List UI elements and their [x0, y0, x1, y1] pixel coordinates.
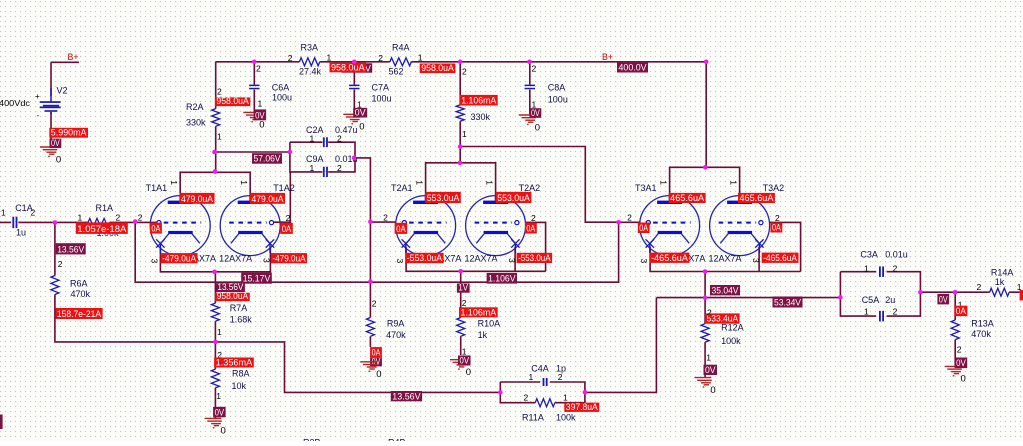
current label 958.0uA after R4A: [420, 64, 456, 74]
svg-text:0V: 0V: [460, 356, 470, 366]
wire feedback to grid node: [135, 222, 618, 283]
capacitor C5A: [879, 311, 881, 322]
svg-text:1: 1: [864, 307, 869, 317]
svg-text:0A: 0A: [282, 224, 292, 234]
triode tube T3A2 (12AX7A): [710, 196, 770, 256]
svg-text:1: 1: [78, 213, 83, 223]
junction B+ corner: [704, 60, 709, 65]
svg-text:1.106mA: 1.106mA: [461, 96, 496, 106]
svg-text:-: -: [37, 111, 40, 120]
voltage label 13.56V feedback wire: [391, 391, 422, 401]
voltage label clipped at left edge: [0, 415, 3, 430]
ground V2: [40, 147, 57, 156]
svg-text:T1A2: T1A2: [273, 183, 295, 193]
svg-text:1: 1: [529, 372, 534, 382]
junction R1A/feedback: [133, 219, 138, 224]
junction C3A/C5A left: [838, 295, 843, 300]
voltage label 13.56V node: [216, 283, 245, 292]
svg-text:R10A: R10A: [478, 319, 501, 329]
current label 1.106mA at R10A: [459, 307, 498, 317]
junction C4A right: [583, 390, 588, 395]
svg-text:2: 2: [138, 213, 143, 223]
svg-text:3: 3: [150, 259, 160, 264]
svg-text:1.106mA: 1.106mA: [461, 307, 497, 317]
svg-text:2: 2: [337, 134, 342, 144]
triode tube T1A1 (12AX7A): [150, 196, 210, 256]
svg-text:397.8uA: 397.8uA: [566, 402, 598, 412]
svg-text:R14A: R14A: [991, 268, 1014, 278]
current label 1.057e-18A: [76, 222, 128, 234]
svg-text:553.0uA: 553.0uA: [427, 193, 460, 203]
svg-text:1k: 1k: [995, 277, 1005, 287]
current label cathode current T2A1: [405, 253, 443, 263]
current label plate current T1A2: [250, 193, 285, 204]
junction C4A left: [498, 390, 503, 395]
triode tube T2A1 (12AX7A): [396, 196, 456, 256]
svg-text:2: 2: [977, 282, 982, 292]
capacitor C6A: [249, 85, 259, 87]
svg-text:1: 1: [728, 180, 738, 185]
current label 1.106mA at R5A: [460, 95, 498, 106]
svg-text:1: 1: [418, 53, 423, 63]
svg-text:0: 0: [259, 120, 264, 131]
resistor R4A: [390, 58, 412, 66]
svg-text:2: 2: [462, 67, 467, 77]
current label cathode current T1A1: [161, 253, 198, 263]
svg-text:3: 3: [262, 258, 272, 263]
junction T1 cathode: [212, 270, 217, 275]
svg-text:562: 562: [389, 67, 404, 77]
triode tube T2A2 (12AX7A): [466, 196, 526, 256]
junction T2 node branch: [458, 144, 463, 149]
resistor R2A: [212, 109, 220, 127]
voltage label 53.34V node: [773, 297, 803, 308]
svg-text:158.7e-21A: 158.7e-21A: [57, 309, 101, 319]
svg-text:2: 2: [707, 307, 712, 317]
current label 958.0uA at R7A: [215, 293, 250, 302]
svg-text:465.6uA: 465.6uA: [740, 193, 774, 203]
svg-text:330k: 330k: [186, 118, 206, 128]
wire T2A2 cathode lead: [514, 247, 516, 271]
svg-text:1: 1: [169, 180, 179, 185]
svg-text:R4B: R4B: [388, 438, 406, 441]
svg-text:958.0uA: 958.0uA: [217, 291, 249, 301]
svg-text:2: 2: [337, 163, 342, 173]
svg-text:2: 2: [116, 213, 121, 223]
svg-text:2: 2: [58, 259, 63, 269]
current label plate current T3A2: [738, 193, 775, 203]
svg-text:R2A: R2A: [186, 102, 204, 112]
svg-text:T2A2: T2A2: [519, 183, 541, 193]
wire C4A/R11A loop: [500, 382, 585, 403]
current label cathode current T1A2: [271, 253, 307, 263]
svg-text:0A: 0A: [151, 224, 160, 234]
svg-text:10k: 10k: [232, 381, 247, 391]
svg-text:0A: 0A: [526, 224, 535, 234]
wire B+ stub at V2: [51, 61, 79, 63]
svg-text:0V: 0V: [531, 108, 540, 118]
voltage label 35.04V node: [710, 285, 740, 295]
svg-text:12AX7A: 12AX7A: [465, 254, 498, 264]
svg-text:465.6uA: 465.6uA: [670, 193, 704, 203]
svg-text:R3B: R3B: [303, 438, 321, 441]
current label plate current T1A1: [180, 193, 215, 204]
wire top B+ rail: [216, 62, 707, 168]
svg-text:12AX7A: 12AX7A: [709, 254, 742, 264]
svg-text:1.68k: 1.68k: [230, 315, 253, 325]
svg-text:100u: 100u: [548, 95, 568, 105]
junction R7A/R8A rail: [213, 340, 218, 345]
wire R5A branch: [459, 62, 461, 163]
svg-text:0: 0: [710, 385, 715, 396]
voltage label 15.17V node: [241, 273, 272, 284]
svg-text:13.56V: 13.56V: [392, 391, 420, 401]
svg-text:1: 1: [484, 180, 494, 185]
svg-text:0A: 0A: [772, 223, 781, 233]
current label grid current T1A2: [280, 223, 293, 234]
capacitor C2A: [323, 137, 325, 147]
svg-text:400.0V: 400.0V: [619, 63, 647, 73]
current label cathode current T2A2: [517, 253, 553, 263]
svg-text:958.0uA: 958.0uA: [216, 96, 249, 106]
current label 397.8uA: [564, 403, 599, 412]
capacitor C4A: [543, 378, 545, 386]
current label 0A at R9A: [370, 347, 382, 358]
junction C-loop left: [288, 150, 293, 155]
svg-text:1.106V: 1.106V: [488, 274, 516, 284]
svg-text:3: 3: [395, 259, 405, 264]
svg-text:C8A: C8A: [548, 83, 566, 93]
junction R13A tap: [953, 290, 958, 295]
junction C-loop right: [352, 156, 357, 161]
svg-text:0.01u: 0.01u: [885, 250, 908, 260]
voltage label 0V at R12A: [704, 365, 718, 375]
current label grid current T2A2: [525, 223, 537, 234]
wire input to T1A1 grid: [0, 221, 157, 223]
junction C7A tap: [352, 60, 357, 65]
svg-text:1: 1: [217, 132, 222, 142]
voltage label 0V at C7A: [353, 108, 367, 118]
svg-text:2: 2: [217, 87, 222, 97]
capacitor C9A: [323, 167, 325, 177]
svg-text:1: 1: [310, 163, 315, 173]
svg-text:0A: 0A: [639, 223, 648, 233]
wire C2A/C9A loop: [290, 142, 355, 172]
current label 958.0uA at R2A: [215, 97, 250, 106]
junction R9A/long wire: [368, 279, 373, 284]
svg-text:1: 1: [258, 99, 263, 109]
svg-text:2: 2: [524, 393, 529, 403]
voltage label 0V at R8A: [213, 407, 226, 418]
svg-text:100k: 100k: [721, 336, 741, 346]
svg-text:57.06V: 57.06V: [254, 154, 281, 164]
wire C3A/C5A loop: [840, 272, 920, 316]
svg-text:0: 0: [466, 367, 471, 378]
svg-text:0: 0: [359, 122, 364, 133]
voltage label 0V at C8A: [530, 108, 542, 118]
resistor R12A: [701, 324, 709, 342]
svg-text:-465.6uA: -465.6uA: [651, 253, 688, 263]
svg-text:R8A: R8A: [232, 369, 250, 379]
resistor R11A: [535, 399, 555, 407]
wire T3 plate rail: [670, 167, 740, 200]
wire T3A1 grid stub: [619, 221, 640, 223]
resistor R9A: [366, 318, 374, 337]
current label plate current T2A2: [496, 192, 532, 203]
current label 0A at R13A: [954, 306, 967, 316]
svg-text:-553.0uA: -553.0uA: [518, 253, 551, 263]
current label 533.4uA at R12A: [705, 313, 740, 323]
svg-text:0: 0: [961, 374, 966, 385]
wire V2 top lead: [50, 62, 52, 96]
ground R8A: [205, 418, 222, 427]
voltage label small V box at R10A: [457, 284, 470, 293]
svg-text:1.356mA: 1.356mA: [216, 358, 253, 368]
resistor R5A (330k): [456, 105, 464, 121]
svg-text:1: 1: [864, 264, 869, 274]
svg-text:12AX7A: 12AX7A: [219, 254, 252, 264]
svg-text:0A: 0A: [956, 306, 966, 316]
junction input/R6A: [53, 220, 58, 225]
wire T2 plate node to grids: [460, 147, 618, 223]
resistor R10A: [457, 318, 465, 337]
svg-text:T3A2: T3A2: [763, 183, 785, 193]
svg-text:-553.0uA: -553.0uA: [407, 253, 443, 263]
svg-text:0V: 0V: [939, 294, 948, 304]
voltage label 0V at R9A: [370, 358, 382, 367]
current label 958.0uA after R3A: [330, 63, 367, 73]
current label 5.990mA: [49, 128, 88, 138]
svg-text:100u: 100u: [372, 94, 392, 104]
svg-text:T2A1: T2A1: [391, 183, 413, 193]
wire C6A stub: [253, 62, 255, 113]
svg-text:C3A: C3A: [860, 250, 878, 260]
svg-text:1: 1: [706, 353, 711, 363]
junction T2 plate rail: [458, 161, 463, 166]
wire T3 cathode to R12A: [704, 272, 706, 378]
svg-text:T3A1: T3A1: [635, 183, 657, 193]
wire T3A2 cathode lead: [758, 247, 760, 272]
svg-text:553.0uA: 553.0uA: [497, 193, 530, 203]
junction T3 output: [703, 296, 708, 301]
ground R13A: [945, 366, 962, 375]
junction T2 cathode: [458, 269, 463, 274]
svg-text:2: 2: [256, 64, 261, 74]
svg-text:958.0uA: 958.0uA: [421, 63, 454, 73]
wire C9A to R9A: [355, 158, 370, 347]
svg-text:1.057e-18A: 1.057e-18A: [77, 224, 126, 234]
current label plate current T3A1: [669, 193, 706, 203]
current label grid current T2A1: [395, 223, 408, 234]
svg-text:2: 2: [383, 213, 388, 223]
junction T1 plate rail: [213, 169, 218, 174]
resistor R13A: [951, 320, 959, 340]
current label grid current T1A1: [150, 223, 162, 234]
wire C8A stub: [529, 62, 531, 115]
current label plate current T2A1: [425, 192, 461, 203]
svg-text:2: 2: [775, 213, 780, 223]
svg-text:0: 0: [535, 122, 540, 133]
svg-text:0: 0: [56, 154, 61, 165]
junction C3A/C5A right: [918, 290, 923, 295]
svg-text:B+: B+: [68, 52, 79, 62]
svg-text:3: 3: [639, 259, 649, 264]
svg-text:0: 0: [376, 369, 381, 380]
ground C8A: [519, 115, 536, 124]
svg-text:1: 1: [1, 208, 6, 218]
wire T2A1 grid stub: [370, 221, 396, 223]
wire R6A branch: [55, 222, 500, 392]
junction T3 plate rail: [703, 165, 708, 170]
voltage label 0V at V2: [50, 139, 62, 149]
svg-text:13.56V: 13.56V: [57, 244, 84, 254]
wire T2 cathode to R10A: [460, 271, 462, 355]
wire V2 to ground: [50, 112, 52, 147]
svg-text:C6A: C6A: [272, 83, 290, 93]
svg-text:35.04V: 35.04V: [712, 285, 739, 295]
wire C7A stub: [353, 62, 355, 115]
svg-text:C7A: C7A: [372, 83, 390, 93]
svg-text:2: 2: [31, 208, 36, 218]
svg-text:1: 1: [327, 53, 332, 63]
svg-text:2: 2: [532, 64, 537, 74]
svg-text:1u: 1u: [16, 228, 26, 238]
voltage label 0V at R13A: [955, 358, 968, 369]
junction T2A1 grid: [368, 220, 373, 225]
svg-text:100u: 100u: [272, 93, 292, 103]
current label cathode current T3A1: [650, 253, 690, 263]
wire T1 cathode rail: [160, 247, 270, 272]
wire T2A2 grid down: [525, 222, 546, 271]
capacitor C7A: [349, 85, 359, 87]
svg-text:2: 2: [957, 345, 962, 355]
capacitor C8A: [525, 85, 535, 87]
voltage label 0V at R10A: [458, 356, 471, 366]
svg-text:-479.0uA: -479.0uA: [162, 253, 196, 263]
voltage label 0V at C6A: [254, 109, 267, 120]
voltage label 13.56V at R6A: [56, 243, 86, 254]
capacitor C1A: [12, 217, 14, 228]
svg-text:0: 0: [221, 426, 226, 437]
svg-text:0V: 0V: [215, 407, 225, 417]
svg-text:2: 2: [462, 298, 467, 308]
svg-text:1: 1: [414, 180, 424, 185]
current label grid current T3A1: [638, 223, 650, 234]
svg-text:1: 1: [462, 129, 467, 139]
svg-text:479.0uA: 479.0uA: [181, 194, 213, 204]
wire T3A2 grid down: [770, 222, 801, 271]
resistor R6A: [51, 276, 59, 295]
wire T3 cathode rail: [650, 247, 801, 272]
svg-text:0V: 0V: [355, 108, 366, 118]
wire T2 plate rail: [426, 163, 496, 201]
ground R10A: [450, 360, 467, 369]
svg-text:R4A: R4A: [392, 43, 410, 53]
svg-text:C5A: C5A: [862, 295, 880, 305]
voltage label 0V at output: [937, 294, 949, 305]
svg-text:27.4k: 27.4k: [299, 67, 322, 77]
svg-text:1: 1: [310, 134, 315, 144]
voltage label 1.106V node: [487, 273, 517, 284]
voltage label hidden behind 958.0uA (V): [342, 63, 373, 72]
ground C6A: [243, 112, 260, 121]
svg-text:R13A: R13A: [971, 319, 994, 329]
svg-text:-465.6uA: -465.6uA: [763, 253, 797, 263]
resistor R14A: [990, 288, 1010, 296]
svg-text:C4A: C4A: [531, 364, 549, 374]
svg-text:2u: 2u: [885, 295, 895, 305]
svg-text:100k: 100k: [556, 412, 576, 422]
svg-text:470k: 470k: [71, 289, 91, 299]
svg-text:R3A: R3A: [301, 43, 319, 53]
svg-text:R7A: R7A: [230, 303, 248, 313]
svg-text:B+: B+: [602, 52, 613, 62]
junction C6A tap: [252, 60, 257, 65]
current label 158.7e-21A: [55, 308, 102, 319]
wire T2 cathode rail: [406, 247, 545, 271]
svg-text:400Vdc: 400Vdc: [0, 99, 30, 108]
svg-text:3: 3: [507, 258, 517, 263]
wire T1 cathode to R7A R8A: [214, 272, 216, 419]
svg-text:0V: 0V: [705, 365, 716, 375]
ground R12A: [695, 378, 712, 387]
junction T3 cathode: [703, 269, 708, 274]
wire T3 output node: [585, 298, 841, 393]
svg-text:2: 2: [372, 299, 377, 309]
svg-text:2: 2: [558, 372, 563, 382]
voltage label 400.0V B+ node: [617, 61, 648, 73]
svg-text:V2: V2: [57, 86, 68, 96]
svg-text:1: 1: [216, 391, 221, 401]
svg-text:1: 1: [658, 180, 668, 185]
resistor R1A: [88, 218, 110, 226]
svg-text:R6A: R6A: [70, 279, 88, 289]
svg-text:958.0uA: 958.0uA: [331, 62, 365, 72]
junction T3A1 grid: [616, 220, 621, 225]
svg-text:0V: 0V: [51, 138, 60, 148]
svg-text:1: 1: [217, 327, 222, 337]
capacitor C3A: [879, 266, 881, 277]
svg-text:330k: 330k: [471, 112, 491, 122]
voltage label 57.06V node: [252, 153, 282, 164]
current label 1.356mA: [214, 358, 254, 368]
resistor R8A: [211, 369, 219, 388]
svg-text:2: 2: [893, 307, 898, 317]
current label cathode current T3A2: [762, 253, 799, 263]
svg-text:1: 1: [239, 180, 249, 185]
current label clipped at right edge: [1020, 290, 1023, 300]
svg-text:53.34V: 53.34V: [774, 298, 801, 308]
svg-text:+: +: [35, 92, 40, 101]
svg-text:2: 2: [378, 53, 383, 63]
svg-text:470k: 470k: [971, 329, 991, 339]
svg-text:1k: 1k: [478, 330, 488, 340]
svg-text:5.990mA: 5.990mA: [51, 128, 87, 138]
ground C7A: [343, 114, 360, 123]
resistor R7A: [211, 303, 219, 321]
wire T1 plate rail: [180, 172, 250, 200]
svg-text:15.17V: 15.17V: [243, 274, 271, 284]
resistor R3A: [299, 58, 319, 66]
junction C8A tap: [527, 60, 532, 65]
svg-text:2: 2: [288, 53, 293, 63]
wire T1A2 grid to C-loop: [274, 172, 291, 222]
svg-text:R11A: R11A: [522, 412, 544, 422]
voltage source V2 (400Vdc battery): [35, 88, 61, 120]
svg-text:R1A: R1A: [96, 203, 114, 213]
svg-text:R12A: R12A: [721, 323, 744, 333]
svg-text:2: 2: [286, 213, 291, 223]
